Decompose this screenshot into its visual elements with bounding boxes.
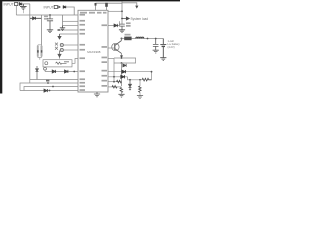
wire loop1 xyxy=(30,80,78,84)
resistor R6 xyxy=(142,78,152,81)
wire pin y30 xyxy=(59,29,78,31)
wire pin y45 xyxy=(63,44,78,46)
wire connector drop xyxy=(15,6,17,15)
diode D7 xyxy=(65,70,68,73)
C1 value xyxy=(44,16,48,18)
node circle xyxy=(44,67,47,70)
wire right vertical low xyxy=(121,63,123,86)
junction dot xyxy=(52,86,54,88)
ground xyxy=(119,30,125,33)
wire corner to resistor row xyxy=(128,77,143,80)
ground arrow xyxy=(58,34,61,39)
diode D12 xyxy=(114,24,118,27)
junction dot xyxy=(121,10,123,12)
top rail wire xyxy=(96,2,123,4)
diode D4 xyxy=(58,51,61,59)
wire y81.7 xyxy=(108,81,122,83)
resistor R8 xyxy=(139,80,141,86)
junction dot xyxy=(49,14,51,16)
resistor R7 xyxy=(120,88,123,93)
component mark xyxy=(46,80,49,82)
junction dot xyxy=(113,76,115,78)
transistor Q1 xyxy=(112,43,119,50)
wire y58 from IC xyxy=(108,58,114,60)
IC left pin labels xyxy=(80,14,86,91)
junction dot xyxy=(121,62,123,64)
wire IC top pin 1 xyxy=(95,3,97,10)
wire vertical A xyxy=(29,4,31,80)
ground xyxy=(137,96,143,99)
LED indicators xyxy=(55,43,58,50)
svg-text:System load: System load xyxy=(131,17,149,21)
junction dot xyxy=(47,82,49,84)
diode D2 xyxy=(63,6,67,9)
diode D5 xyxy=(36,66,39,80)
wire loop2 xyxy=(20,83,78,91)
wire vertical B xyxy=(41,15,43,45)
capacitor C4 xyxy=(60,48,63,51)
wire y86.9 xyxy=(108,86,122,88)
junction dot xyxy=(121,57,123,59)
resistor R1 xyxy=(58,29,61,31)
wire y71.7 xyxy=(108,71,152,73)
junction dot xyxy=(113,81,115,83)
ground xyxy=(153,50,159,53)
diode D3 xyxy=(30,17,41,20)
wire pin y50 xyxy=(63,49,78,51)
diode D11 xyxy=(121,75,125,78)
IC right pin labels xyxy=(102,24,108,86)
C5 value xyxy=(126,22,131,24)
step loop wires xyxy=(114,58,136,63)
wire vertical C xyxy=(62,15,64,26)
capacitor C3 xyxy=(60,43,63,46)
junction dot xyxy=(73,71,75,73)
svg-text:INPUT: INPUT xyxy=(44,5,54,9)
battery line xyxy=(122,38,164,40)
wire y76.8 xyxy=(108,76,128,78)
junction dot xyxy=(121,18,123,20)
inductor L1 xyxy=(136,37,144,38)
arrow xyxy=(58,6,60,8)
top page border xyxy=(0,0,180,1)
left page border xyxy=(0,0,2,94)
ground under IC xyxy=(94,92,100,97)
ground (left pins) xyxy=(60,26,65,31)
wire loop4 xyxy=(20,90,78,92)
ground (input TVS) xyxy=(20,4,27,9)
capacitor C1 xyxy=(47,15,53,30)
diode D8 xyxy=(44,89,47,92)
connector J2 xyxy=(54,5,57,8)
wire join vertical xyxy=(151,72,153,80)
junction dot xyxy=(155,38,157,40)
junction dot xyxy=(121,38,123,40)
ground xyxy=(160,58,166,61)
junction dot xyxy=(139,79,141,81)
capacitor C5 xyxy=(119,24,125,30)
wire bus vertical xyxy=(113,58,115,82)
wire emitter down xyxy=(121,53,123,56)
wire IC top pin 2 xyxy=(106,3,108,10)
resistor R10 xyxy=(112,86,117,89)
junction dot xyxy=(95,3,97,6)
diode to ground xyxy=(129,79,131,81)
sense resistor R5 xyxy=(124,37,131,41)
junction dot xyxy=(147,38,149,40)
resistor R3 xyxy=(38,45,42,58)
resistor R4 xyxy=(56,62,67,64)
wire pin y21 xyxy=(63,20,79,22)
wire pin y25 xyxy=(63,25,79,27)
wire pin y34 xyxy=(60,33,79,35)
svg-text:MAX1908: MAX1908 xyxy=(87,50,101,54)
wire IC to rail xyxy=(108,10,122,12)
text in box xyxy=(45,62,48,65)
wire y25.5 right xyxy=(108,21,120,25)
wire rail y15 xyxy=(16,14,78,16)
diode D1 xyxy=(19,3,22,6)
wire box to IC xyxy=(72,59,78,64)
wire loop3 xyxy=(24,87,78,91)
box (battery model) xyxy=(43,60,72,67)
op-amp U1 (charger IC body) xyxy=(78,10,108,92)
wire collector up xyxy=(121,39,123,41)
corner arrow to load xyxy=(122,3,137,6)
diode D9 xyxy=(123,64,126,67)
wire base xyxy=(108,47,115,49)
ground xyxy=(118,94,124,97)
wire input1 top xyxy=(22,3,30,5)
junction dot xyxy=(151,71,153,73)
diode D6 xyxy=(52,70,55,73)
box label xyxy=(64,61,69,62)
svg-text:INPUT: INPUT xyxy=(4,2,14,6)
right rail xyxy=(121,2,123,24)
junction dot xyxy=(49,90,51,92)
IC top pin labels xyxy=(80,12,87,14)
wire y71.5 xyxy=(45,71,78,73)
system load arrow xyxy=(122,17,129,20)
resistor R9 xyxy=(117,80,122,83)
battery BT1 xyxy=(160,39,166,58)
junction dot (diode mark) xyxy=(105,3,108,7)
ground xyxy=(47,30,53,33)
svg-text:(4.2V): (4.2V) xyxy=(168,45,175,49)
wire input2 xyxy=(66,7,74,15)
diode D10 xyxy=(122,70,126,73)
capacitor C6 xyxy=(153,39,159,51)
connector J1 xyxy=(15,2,18,5)
